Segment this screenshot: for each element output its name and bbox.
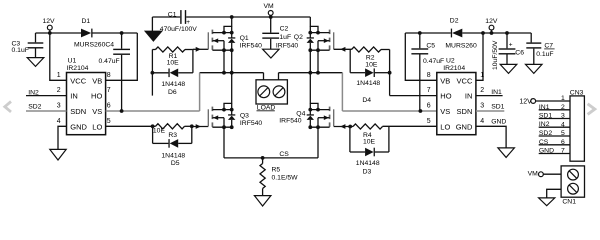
svg-text:12V: 12V <box>485 18 498 25</box>
svg-text:1N4148: 1N4148 <box>161 153 185 160</box>
svg-text:IN2: IN2 <box>28 89 39 96</box>
svg-text:IRF540: IRF540 <box>279 117 302 124</box>
svg-text:IRF540: IRF540 <box>276 43 299 50</box>
svg-text:6: 6 <box>561 139 565 146</box>
svg-text:IN: IN <box>70 92 78 101</box>
svg-text:3: 3 <box>57 103 61 110</box>
svg-text:HO: HO <box>91 92 102 101</box>
svg-text:HO: HO <box>440 92 451 101</box>
svg-text:5: 5 <box>107 118 111 125</box>
svg-text:VM: VM <box>528 171 539 178</box>
svg-text:SD1: SD1 <box>539 113 552 120</box>
svg-text:SD2: SD2 <box>28 104 41 111</box>
svg-text:D5: D5 <box>171 160 180 167</box>
svg-text:IR2104: IR2104 <box>67 65 89 72</box>
svg-text:Q1: Q1 <box>240 35 249 42</box>
svg-text:3: 3 <box>480 103 484 110</box>
svg-text:Q2: Q2 <box>294 34 303 41</box>
svg-text:VB: VB <box>92 76 102 85</box>
svg-text:CS: CS <box>279 151 289 158</box>
svg-text:5: 5 <box>561 130 565 137</box>
svg-text:R2: R2 <box>366 54 375 61</box>
svg-text:IR2104: IR2104 <box>443 65 465 72</box>
svg-text:4: 4 <box>480 118 484 125</box>
svg-text:0.1uF: 0.1uF <box>536 51 553 58</box>
svg-text:C2: C2 <box>280 25 289 32</box>
svg-text:6: 6 <box>107 103 111 110</box>
svg-text:GND: GND <box>491 119 506 126</box>
svg-text:10E: 10E <box>153 128 166 135</box>
svg-text:IRF540: IRF540 <box>240 43 263 50</box>
svg-text:SD1: SD1 <box>491 104 504 111</box>
svg-text:CS: CS <box>539 139 549 146</box>
svg-text:0.47uF: 0.47uF <box>423 58 444 65</box>
svg-text:0.1uF: 0.1uF <box>12 47 29 54</box>
svg-text:12V: 12V <box>519 98 532 105</box>
svg-text:VCC: VCC <box>70 76 86 85</box>
svg-text:D2: D2 <box>450 17 459 24</box>
svg-text:C6: C6 <box>515 49 524 56</box>
svg-text:1: 1 <box>480 72 484 79</box>
svg-text:VS: VS <box>440 107 450 116</box>
svg-text:CN3: CN3 <box>570 90 584 97</box>
svg-text:IN1: IN1 <box>491 89 502 96</box>
svg-text:VB: VB <box>440 76 450 85</box>
svg-text:SDN: SDN <box>70 107 86 116</box>
svg-text:1: 1 <box>57 72 61 79</box>
svg-text:MURS260: MURS260 <box>445 42 477 49</box>
svg-text:LO: LO <box>92 122 102 131</box>
svg-text:VM: VM <box>264 3 275 10</box>
svg-text:D4: D4 <box>362 97 371 104</box>
svg-text:7: 7 <box>427 87 431 94</box>
svg-text:4: 4 <box>57 118 61 125</box>
svg-text:D3: D3 <box>363 169 372 176</box>
svg-text:10E: 10E <box>167 59 180 66</box>
svg-text:0.1E/5W: 0.1E/5W <box>272 174 299 181</box>
svg-text:GND: GND <box>456 122 473 131</box>
svg-text:+: + <box>509 42 513 49</box>
svg-text:4: 4 <box>561 122 565 129</box>
svg-text:10E: 10E <box>363 139 376 146</box>
svg-text:12V: 12V <box>43 18 56 25</box>
svg-text:LO: LO <box>440 122 450 131</box>
svg-text:IN1: IN1 <box>539 104 550 111</box>
svg-text:7: 7 <box>107 87 111 94</box>
svg-text:C1: C1 <box>168 12 177 19</box>
svg-text:U1: U1 <box>68 57 77 64</box>
svg-text:1N4148: 1N4148 <box>161 81 185 88</box>
svg-text:VCC: VCC <box>457 76 473 85</box>
svg-text:R3: R3 <box>168 132 177 139</box>
svg-text:GND: GND <box>539 148 554 155</box>
svg-text:1N4148: 1N4148 <box>356 80 380 87</box>
svg-text:10E: 10E <box>365 61 378 68</box>
svg-text:7: 7 <box>561 148 565 155</box>
svg-text:1N4148: 1N4148 <box>356 160 380 167</box>
svg-text:3: 3 <box>561 113 565 120</box>
svg-text:470uF/100V: 470uF/100V <box>160 26 198 33</box>
svg-text:8: 8 <box>427 72 431 79</box>
svg-text:VS: VS <box>92 107 102 116</box>
svg-text:1uF: 1uF <box>279 34 291 41</box>
svg-text:GND: GND <box>70 122 87 131</box>
svg-text:CN1: CN1 <box>562 198 576 205</box>
svg-text:SDN: SDN <box>457 107 473 116</box>
svg-text:+: + <box>186 19 190 26</box>
svg-text:LOAD: LOAD <box>257 104 276 111</box>
svg-text:SD2: SD2 <box>539 130 552 137</box>
svg-text:Q3: Q3 <box>240 112 249 119</box>
svg-text:2: 2 <box>561 104 565 111</box>
svg-text:D6: D6 <box>168 89 177 96</box>
svg-text:10uF/50V: 10uF/50V <box>492 40 499 70</box>
svg-text:C5: C5 <box>426 43 435 50</box>
svg-text:6: 6 <box>427 103 431 110</box>
svg-text:R5: R5 <box>272 166 281 173</box>
svg-text:MURS260C4: MURS260C4 <box>74 41 114 48</box>
svg-text:IN2: IN2 <box>539 121 550 128</box>
svg-text:IN: IN <box>465 92 473 101</box>
svg-text:8: 8 <box>107 72 111 79</box>
svg-text:D1: D1 <box>82 18 91 25</box>
svg-text:5: 5 <box>427 118 431 125</box>
svg-text:2: 2 <box>480 87 484 94</box>
svg-text:IRF540: IRF540 <box>240 120 263 127</box>
svg-text:U2: U2 <box>446 57 455 64</box>
svg-text:1: 1 <box>561 95 565 102</box>
svg-text:0.47uF: 0.47uF <box>99 58 120 65</box>
svg-text:2: 2 <box>57 87 61 94</box>
